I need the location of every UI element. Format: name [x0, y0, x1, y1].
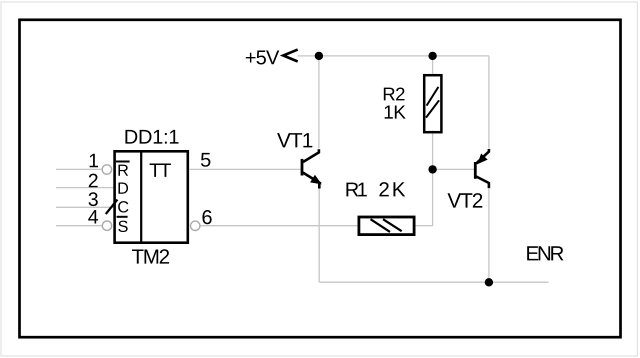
wire pin2 input: [56, 187, 114, 189]
dynamic input slash on C pin: [106, 200, 118, 214]
transistor VT1: [302, 149, 322, 188]
wire +5V rail: [297, 55, 489, 57]
wire R2 top stub: [432, 56, 434, 76]
wire bottom ENR rail: [319, 281, 548, 283]
junction dot rail to R2: [428, 52, 436, 60]
pin label C: [118, 201, 128, 212]
wire R2 bottom to node: [432, 131, 434, 170]
wire VT1 collector riser: [318, 56, 320, 148]
value 2K: [379, 182, 405, 196]
pin number 1: [90, 154, 98, 167]
pin number 5: [201, 153, 210, 167]
pin number 2: [89, 174, 98, 188]
value 1K: [385, 106, 406, 119]
inversion bubble pin1: [102, 165, 111, 174]
wire VT1 emitter drop: [318, 188, 320, 282]
label R1: [346, 183, 366, 197]
power +5V connector arrow: [283, 50, 298, 62]
inversion bubble pin6: [191, 221, 200, 230]
wire VT2 base: [433, 168, 474, 170]
transistor VT2: [475, 149, 489, 188]
inversion bubble pin4: [102, 221, 111, 230]
resistor R2: [424, 75, 441, 132]
label R2: [384, 87, 405, 100]
label VT1: [277, 133, 312, 147]
pin number 3: [89, 192, 98, 206]
junction node R2/VT2 base/R1: [428, 165, 436, 173]
pin label R with overbar: [116, 162, 130, 176]
label DD1:1: [125, 130, 178, 144]
resistor R1: [359, 217, 414, 235]
flip-flop DD1:1 body: [115, 151, 188, 242]
junction dot ENR rail to VT2 collector: [485, 278, 493, 286]
label TT: [150, 163, 171, 176]
junction dot rail to VT1 collector: [315, 52, 323, 60]
wire pin4 input: [56, 225, 102, 227]
pin label S with overbar: [117, 217, 128, 232]
wire pin5 to VT1 base: [189, 168, 301, 170]
wire pin6 to R1: [200, 225, 357, 227]
label VT2: [447, 193, 482, 208]
wire VT2 emitter riser: [488, 56, 490, 148]
wire node to R1 right: [415, 169, 432, 225]
pin number 6: [202, 210, 211, 224]
node label ENR: [527, 246, 563, 260]
wire pin3 input: [56, 206, 114, 208]
wire VT2 collector drop: [488, 188, 490, 282]
pin number 4: [88, 210, 98, 223]
power label +5V: [246, 51, 279, 65]
label TM2: [132, 249, 169, 263]
wire pin1 input: [56, 168, 102, 170]
pin label D: [118, 183, 128, 194]
